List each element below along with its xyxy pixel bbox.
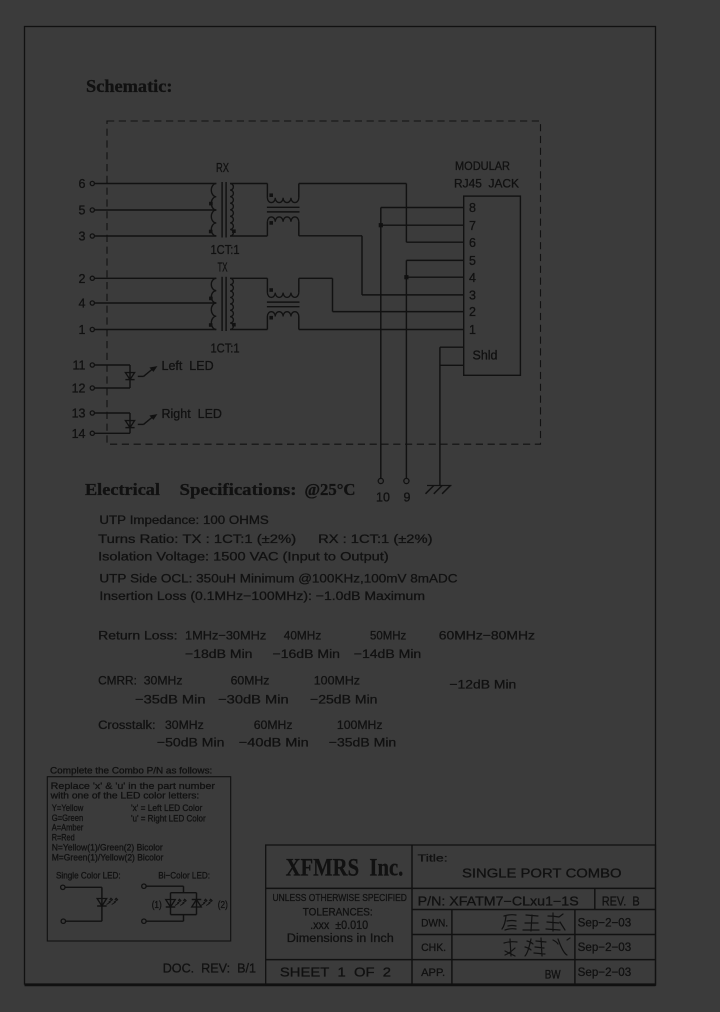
svg-text:M=Green(1)/Yellow(2) Bicolor: M=Green(1)/Yellow(2) Bicolor	[52, 853, 164, 863]
svg-text:Y=Yellow: Y=Yellow	[52, 803, 84, 813]
svg-text:1: 1	[469, 323, 476, 337]
svg-text:1MHz−30MHz: 1MHz−30MHz	[185, 629, 266, 643]
svg-text:Single Color LED:: Single Color LED:	[56, 870, 121, 880]
svg-text:UTP Impedance: 100 OHMS: UTP Impedance: 100 OHMS	[99, 513, 268, 527]
svg-text:Turns Ratio: TX : 1CT:1 (±2%): Turns Ratio: TX : 1CT:1 (±2%)	[98, 532, 296, 546]
svg-text:Dimensions in Inch: Dimensions in Inch	[287, 933, 394, 945]
svg-text:−18dB Min: −18dB Min	[185, 647, 253, 661]
svg-text:1CT:1: 1CT:1	[211, 342, 240, 356]
svg-text:−35dB Min: −35dB Min	[135, 693, 206, 707]
svg-text:Right LED: Right LED	[162, 407, 222, 421]
svg-text:−50dB Min: −50dB Min	[157, 736, 225, 750]
svg-text:30MHz: 30MHz	[165, 718, 204, 732]
svg-text:R=Red: R=Red	[52, 832, 75, 842]
svg-text:TX: TX	[218, 261, 228, 275]
svg-text:2: 2	[469, 305, 476, 319]
svg-text:Sep−2−03: Sep−2−03	[578, 918, 632, 930]
svg-text:Shld: Shld	[473, 349, 498, 363]
svg-text:Sep−2−03: Sep−2−03	[578, 967, 632, 979]
svg-text:Complete the Combo P/N as foll: Complete the Combo P/N as follows:	[50, 766, 212, 776]
svg-text:−40dB Min: −40dB Min	[239, 736, 309, 750]
svg-text:DOC. REV: B/1: DOC. REV: B/1	[163, 961, 256, 976]
svg-text:14: 14	[72, 427, 86, 441]
svg-text:−35dB Min: −35dB Min	[329, 736, 397, 750]
svg-text:UNLESS OTHERWISE SPECIFIED: UNLESS OTHERWISE SPECIFIED	[273, 893, 407, 904]
svg-text:2: 2	[79, 272, 86, 286]
svg-text:RJ45 JACK: RJ45 JACK	[454, 177, 519, 191]
svg-text:'x' = Left LED Color: 'x' = Left LED Color	[131, 803, 202, 813]
svg-text:4: 4	[469, 271, 476, 285]
svg-text:5: 5	[79, 204, 86, 218]
svg-text:1CT:1: 1CT:1	[211, 243, 240, 257]
svg-text:4: 4	[79, 297, 86, 311]
svg-text:−25dB Min: −25dB Min	[310, 693, 378, 707]
svg-text:−12dB Min: −12dB Min	[449, 678, 516, 692]
svg-text:3: 3	[469, 289, 476, 303]
svg-text:Insertion Loss (0.1MHz−100MHz): Insertion Loss (0.1MHz−100MHz): −1.0dB M…	[99, 589, 425, 603]
svg-text:Isolation Voltage: 1500 VAC (I: Isolation Voltage: 1500 VAC (Input to Ou…	[98, 550, 389, 564]
svg-text:1: 1	[79, 323, 86, 337]
svg-text:6: 6	[79, 177, 86, 191]
svg-text:8: 8	[469, 201, 476, 215]
svg-text:60MHz: 60MHz	[231, 674, 270, 688]
svg-text:(2): (2)	[218, 900, 228, 911]
svg-text:BW: BW	[545, 970, 561, 982]
svg-text:RX: RX	[216, 161, 229, 175]
svg-text:Left LED: Left LED	[162, 359, 214, 373]
svg-text:100MHz: 100MHz	[337, 718, 383, 732]
svg-text:APP.: APP.	[421, 967, 445, 979]
svg-text:3: 3	[79, 230, 86, 244]
svg-text:60MHz: 60MHz	[254, 718, 293, 732]
svg-text:Replace 'x' & 'u' in the part: Replace 'x' & 'u' in the part number	[51, 781, 215, 791]
svg-text:SINGLE PORT COMBO: SINGLE PORT COMBO	[462, 867, 622, 881]
svg-text:Crosstalk:: Crosstalk:	[98, 718, 156, 732]
svg-text:XFMRS Inc.: XFMRS Inc.	[286, 855, 404, 882]
svg-text:13: 13	[72, 407, 86, 421]
svg-text:−14dB Min: −14dB Min	[354, 647, 422, 661]
svg-text:Sep−2−03: Sep−2−03	[578, 942, 632, 954]
svg-text:'u' = Right LED Color: 'u' = Right LED Color	[131, 814, 206, 824]
svg-text:10: 10	[376, 491, 390, 505]
svg-text:TOLERANCES:: TOLERANCES:	[303, 907, 373, 919]
svg-text:RX : 1CT:1 (±2%): RX : 1CT:1 (±2%)	[318, 532, 432, 546]
svg-text:SHEET 1 OF 2: SHEET 1 OF 2	[280, 965, 391, 979]
svg-text:50MHz: 50MHz	[370, 629, 406, 643]
svg-text:MODULAR: MODULAR	[455, 159, 510, 173]
svg-text:9: 9	[404, 491, 411, 505]
svg-text:REV. B: REV. B	[602, 895, 640, 909]
svg-text:7: 7	[469, 219, 476, 233]
svg-text:−30dB Min: −30dB Min	[218, 693, 289, 707]
svg-text:.xxx ±0.010: .xxx ±0.010	[310, 920, 368, 932]
svg-text:N=Yellow(1)/Green(2) Bicolor: N=Yellow(1)/Green(2) Bicolor	[52, 842, 163, 852]
svg-text:Specifications:: Specifications:	[180, 480, 297, 499]
svg-text:Bi−Color LED:: Bi−Color LED:	[158, 870, 210, 880]
svg-text:60MHz−80MHz: 60MHz−80MHz	[439, 629, 535, 643]
svg-text:CHK.: CHK.	[421, 942, 446, 954]
svg-text:DWN.: DWN.	[421, 918, 448, 930]
svg-text:@25°C: @25°C	[305, 480, 356, 499]
svg-text:5: 5	[469, 254, 476, 268]
svg-text:6: 6	[469, 236, 476, 250]
svg-text:−16dB Min: −16dB Min	[273, 647, 341, 661]
svg-text:30MHz: 30MHz	[144, 674, 183, 688]
svg-text:Return Loss:: Return Loss:	[98, 629, 177, 643]
svg-text:(1): (1)	[152, 900, 162, 911]
svg-text:Schematic:: Schematic:	[86, 76, 173, 96]
svg-text:A=Amber: A=Amber	[52, 822, 84, 832]
svg-text:Title:: Title:	[418, 853, 448, 865]
svg-text:100MHz: 100MHz	[314, 674, 360, 688]
svg-text:CMRR:: CMRR:	[98, 674, 137, 688]
svg-text:with one of the LED color lett: with one of the LED color letters:	[50, 791, 200, 801]
svg-text:Electrical: Electrical	[85, 480, 160, 499]
svg-text:P/N: XFATM7−CLxu1−1S: P/N: XFATM7−CLxu1−1S	[418, 895, 579, 909]
svg-text:UTP Side OCL: 350uH Minimum @1: UTP Side OCL: 350uH Minimum @100KHz,100m…	[99, 572, 457, 586]
svg-text:11: 11	[73, 359, 86, 373]
svg-text:40MHz: 40MHz	[284, 629, 322, 643]
svg-text:12: 12	[72, 382, 86, 396]
